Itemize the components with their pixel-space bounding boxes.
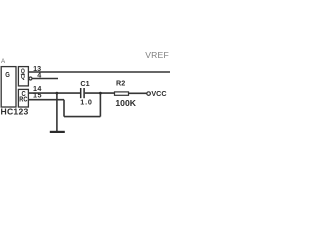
ground symbol [50, 131, 65, 133]
wire pin15 under-route vertical down [63, 100, 65, 117]
wire pin15 under-route vertical up to RC node [99, 93, 101, 117]
svg-text:15: 15 [33, 90, 42, 99]
junction node RC net [99, 92, 102, 95]
junction node on pin14 net [56, 92, 59, 95]
wire capacitor right plate to R2 [85, 92, 114, 94]
inversion bubble on pin 4 [29, 77, 32, 80]
svg-text:R2: R2 [116, 78, 125, 87]
svg-text:VCC: VCC [151, 89, 166, 98]
svg-text:G: G [5, 70, 10, 79]
wire pin15 RC pin horizontal [28, 99, 64, 101]
svg-text:1.0: 1.0 [80, 98, 92, 107]
IC U1 Q/Qbar section box [18, 67, 28, 86]
wire ground branch vertical [56, 93, 58, 131]
IC U1 C/RC section box [18, 89, 28, 107]
capacitor C1 left plate [80, 88, 82, 98]
IC U1 HC123 G-section box [1, 67, 16, 107]
wire pin14 C pin to capacitor left plate [28, 92, 80, 94]
wire pin15 under-route horizontal [64, 116, 100, 118]
svg-text:HC123: HC123 [1, 106, 29, 116]
VCC terminal circle [147, 92, 151, 96]
resistor R2 body [115, 92, 129, 95]
svg-text:RC: RC [19, 96, 27, 103]
capacitor C1 right plate [83, 88, 85, 98]
wire pin4 Qbar stub [32, 78, 58, 80]
svg-text:C1: C1 [80, 79, 89, 88]
svg-text:VREF: VREF [145, 50, 169, 60]
wire pin13 Q output to right edge (VREF net) [28, 71, 170, 73]
svg-text:100K: 100K [115, 98, 136, 108]
wire R2 to VCC terminal [129, 92, 147, 94]
